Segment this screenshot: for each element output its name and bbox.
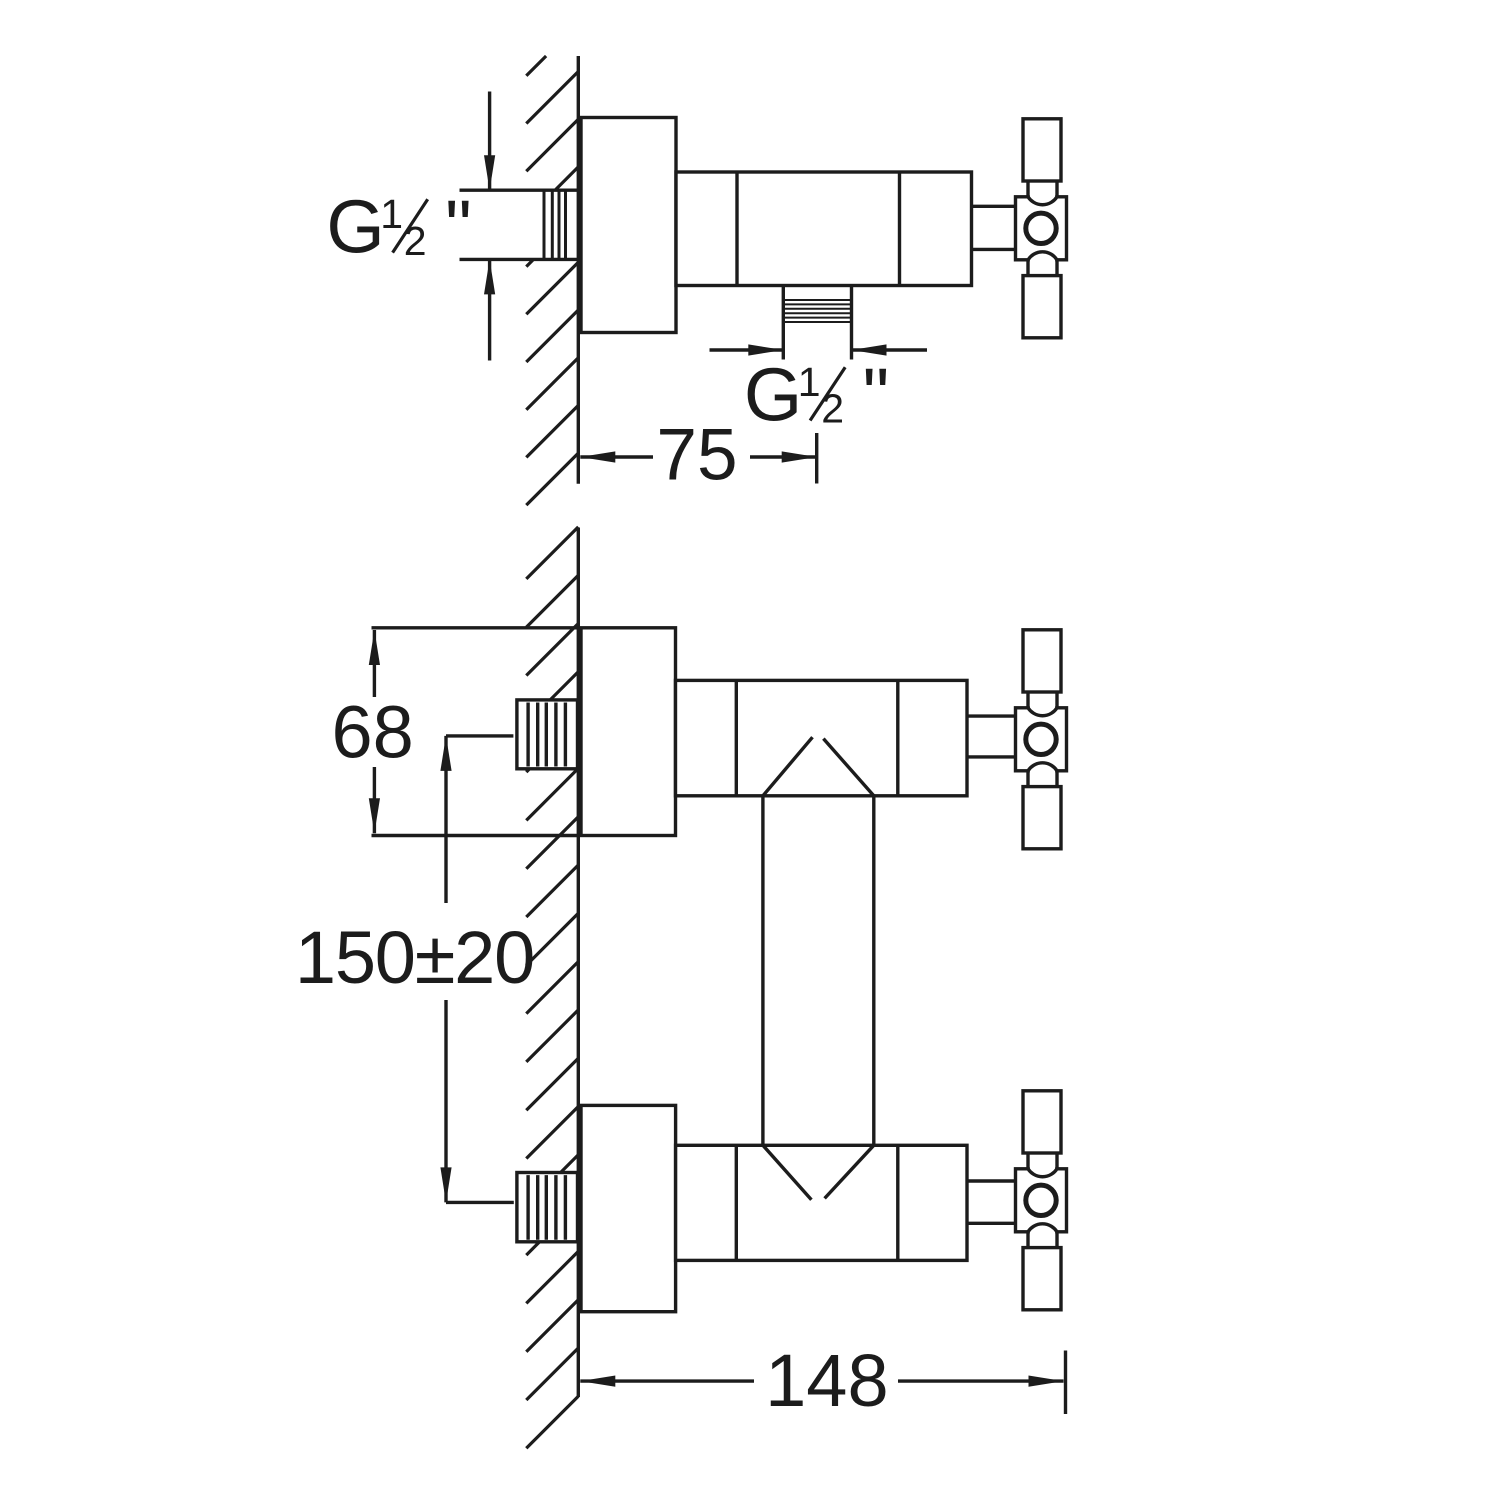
svg-text:75: 75 [656, 415, 737, 496]
cross handle lower (front view): upper spoke stem [1026, 1153, 1029, 1169]
dimension 150±20: upper arrow + jog [446, 734, 513, 737]
cross handle upper (front view): upper grip bar [1023, 630, 1061, 692]
dimension G1/2 inlet (side view): dimension line with arrows [488, 92, 491, 191]
lower body section line 2 [896, 1145, 899, 1260]
wall hatching (side view) [526, 56, 546, 76]
cross handle (side view): lower spoke arc [1028, 252, 1057, 260]
riser pipe walls [761, 796, 764, 1146]
wall (front view) [577, 528, 580, 1398]
cross handle lower (front view): hub [1016, 1169, 1067, 1232]
outlet thread lines [783, 299, 851, 301]
svg-text:68: 68 [331, 691, 413, 774]
dimension 68: dimension line + arrows [373, 630, 376, 697]
cross handle upper (front view): upper spoke stem [1026, 692, 1029, 708]
upper body section line 2 [896, 680, 899, 795]
handle neck (side view) [972, 205, 1016, 208]
shower outlet nipple G1/2 (side view) [782, 286, 785, 360]
svg-text:150±20: 150±20 [295, 916, 534, 999]
valve body (side view) [676, 172, 972, 286]
svg-text:1: 1 [798, 359, 821, 405]
dimension 150±20: lower arrow + jog [446, 1201, 514, 1204]
cross handle upper (front view): hub [1016, 708, 1067, 771]
svg-text:2: 2 [821, 386, 844, 432]
cross handle lower (front view): lower spoke arc [1028, 1224, 1057, 1232]
svg-text:": " [863, 353, 890, 437]
svg-text:1: 1 [380, 191, 403, 237]
cross handle lower (front view): upper spoke arc [1028, 1169, 1057, 1177]
dimension 68: extension lines [372, 626, 581, 629]
cross handle (side view): hub [1016, 197, 1067, 260]
svg-text:G: G [744, 353, 802, 437]
cross handle (side view): screw circle [1026, 213, 1056, 243]
body section line 2 [898, 172, 901, 286]
cross handle upper (front view): screw circle [1026, 724, 1056, 754]
cross handle (side view): lower grip bar [1023, 276, 1061, 338]
inlet pipe thread lines [543, 190, 546, 259]
lower escutcheon [581, 1105, 676, 1311]
svg-text:G: G [326, 185, 384, 269]
cross handle (side view): upper grip bar [1023, 119, 1061, 181]
cross handle upper (front view): lower grip bar [1023, 787, 1061, 849]
upper flow chevron [763, 737, 813, 796]
cross handle lower (front view): screw circle [1026, 1185, 1056, 1215]
lower handle neck [967, 1179, 1016, 1182]
wall (side view) [577, 56, 580, 484]
wall hatching (front view) [526, 527, 578, 579]
upper handle neck [967, 714, 1016, 717]
body section line 1 [735, 172, 738, 286]
svg-text:148: 148 [765, 1339, 888, 1422]
cross handle upper (front view): lower spoke arc [1028, 763, 1057, 771]
lower valve body [676, 1145, 967, 1260]
svg-text:": " [445, 185, 472, 269]
wall escutcheon (side view) [581, 118, 676, 333]
dimension 148: line, arrows, extension [580, 1379, 754, 1382]
dimension 75: line, arrows, extension [580, 455, 653, 458]
lower inlet nipple G1/2 (front view) [517, 1173, 578, 1242]
cross handle upper (front view): upper spoke arc [1028, 708, 1057, 716]
svg-text:2: 2 [404, 218, 427, 264]
upper body section line 1 [735, 680, 738, 795]
inlet pipe G1/2 (side view) top line / extension [460, 188, 579, 191]
upper inlet nipple G1/2 (front view) [517, 700, 578, 769]
cross handle lower (front view): lower grip bar [1023, 1248, 1061, 1310]
dimension G1/2 outlet: dimension line with arrows [710, 348, 784, 351]
cross handle upper (front view): lower spoke stem [1026, 771, 1029, 787]
cross handle lower (front view): upper grip bar [1023, 1091, 1061, 1153]
upper valve body [676, 680, 968, 795]
cross handle lower (front view): lower spoke stem [1026, 1232, 1029, 1248]
lower flow chevron [763, 1145, 812, 1200]
upper escutcheon [581, 628, 676, 836]
cross handle (side view): upper spoke arc [1028, 197, 1057, 205]
cross handle (side view): lower spoke stem [1026, 260, 1029, 276]
lower body section line 1 [735, 1145, 738, 1260]
cross handle (side view): upper spoke stem [1026, 181, 1029, 197]
